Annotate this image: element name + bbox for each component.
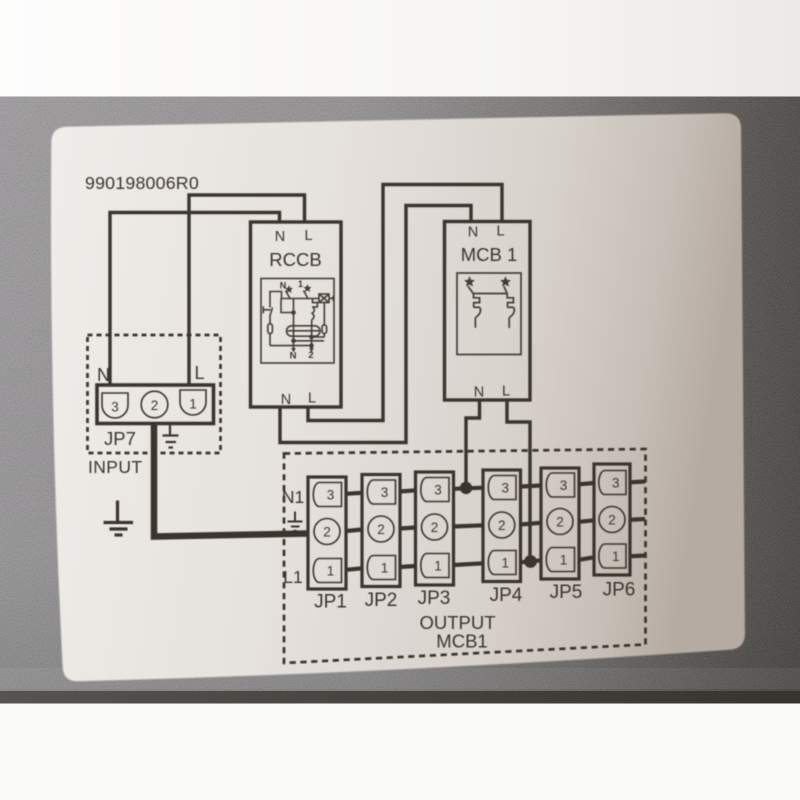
sensing lead upper [312, 336, 325, 338]
JP4 terminal pin [488, 476, 516, 500]
svg-text:JP3: JP3 [418, 588, 451, 609]
pole 2 terminal arrow [309, 348, 314, 353]
junction node on row3 bus [460, 482, 472, 494]
svg-text:L: L [194, 363, 204, 383]
bus row3 JP1-JP2 [346, 493, 362, 494]
MCB left thermal jog [474, 294, 480, 308]
svg-text:3: 3 [111, 400, 119, 415]
MCB left bar [474, 306, 480, 308]
JP7 terminal 2 [141, 391, 168, 418]
svg-text:1: 1 [612, 549, 620, 564]
MCB left pole star [465, 277, 475, 287]
JP5 terminal pin [546, 473, 574, 497]
test return line to pole 2 [270, 345, 312, 347]
trip coil lower lead [323, 303, 325, 325]
MCB right bar [507, 306, 513, 308]
RCCB left rail lower [269, 316, 271, 324]
trip coil end tick [332, 296, 334, 301]
toroid middle line [288, 330, 320, 332]
trip coil cross 2 [319, 294, 329, 303]
JP3 terminal 2 pin [422, 514, 448, 540]
svg-text:1: 1 [298, 279, 303, 289]
JP4 terminal pin [488, 551, 516, 575]
svg-text:3: 3 [327, 487, 335, 502]
JP3 terminal pin [421, 478, 449, 502]
RCCB pole N conductor [293, 299, 295, 349]
wire MCB1 L bottom down to output bus row1 [507, 399, 530, 562]
RCCB pole 1 thermal jog [312, 299, 317, 307]
RCCB test button [262, 306, 264, 313]
JP2 terminal pin [367, 556, 395, 580]
MCB right contact blade [504, 286, 507, 293]
svg-text:2: 2 [151, 398, 159, 413]
MCB left contact blade [468, 286, 473, 293]
test resistor [268, 324, 273, 334]
svg-text:3: 3 [434, 482, 442, 497]
INPUT dashed box [88, 335, 221, 453]
MCB right pole lower lead [508, 318, 510, 328]
svg-text:N: N [290, 351, 297, 362]
JP6 terminal pin [599, 544, 626, 568]
wire MCB1 N bottom down to output bus row3 [466, 399, 480, 488]
svg-text:N: N [280, 281, 287, 291]
bus row1 JP3-JP4 [454, 563, 484, 565]
svg-text:N1: N1 [282, 487, 304, 507]
svg-text:3: 3 [381, 485, 389, 500]
wire input N: JP7 terminal3 up and over to RCCB top N pin [110, 213, 280, 387]
trip coil lead right [329, 297, 333, 299]
JP4 terminal block [483, 470, 523, 606]
bus row2 JP4-JP5 [521, 523, 542, 525]
JP3 terminal pin [421, 554, 449, 578]
RCCB pole 2 conductor [311, 320, 313, 348]
MCB inner box [457, 273, 521, 355]
JP4 terminal 2 pin [489, 512, 515, 538]
RCCB pole N star [285, 286, 292, 293]
svg-text:1: 1 [327, 563, 335, 578]
panel grain texture [0, 97, 800, 704]
svg-text:JP5: JP5 [550, 582, 583, 603]
JP2 terminal block [362, 475, 400, 612]
pole N terminal arrow [291, 348, 296, 353]
svg-text:JP4: JP4 [490, 585, 523, 606]
svg-text:3: 3 [560, 478, 568, 493]
bus row2 JP3-JP4 [454, 525, 484, 526]
svg-text:N: N [474, 385, 484, 401]
svg-text:JP6: JP6 [603, 580, 636, 601]
RCCB pole N contact blade [286, 291, 291, 299]
svg-text:1: 1 [189, 397, 197, 412]
JP7 earth symbol [163, 425, 179, 448]
panel bottom edge highlight [0, 668, 800, 689]
JP7 terminal 3 [102, 393, 128, 418]
svg-text:2: 2 [377, 522, 385, 537]
JP1 terminal pin [313, 559, 341, 583]
wire RCCB L bottom to MCB1 L top [308, 185, 502, 421]
bus row3 JP3-JP4 [454, 488, 484, 489]
svg-text:N: N [468, 225, 478, 241]
bus row1 JP5-JP6 [579, 557, 594, 560]
svg-text:JP7: JP7 [104, 428, 136, 449]
bus row1 JP4-JP5 [521, 560, 542, 562]
svg-text:2: 2 [608, 512, 616, 527]
JP3 outline [416, 472, 454, 585]
svg-text:1: 1 [381, 560, 389, 575]
svg-text:2: 2 [323, 524, 331, 539]
svg-text:MCB 1: MCB 1 [461, 244, 518, 265]
svg-text:1: 1 [560, 552, 568, 567]
svg-text:2: 2 [498, 518, 506, 533]
svg-text:L: L [496, 224, 504, 240]
bus row3 JP5-JP6 [579, 483, 594, 484]
secondary winding capsule [322, 325, 327, 334]
MCB crossbar [473, 293, 507, 295]
trip coil cross 1 [319, 294, 329, 303]
bus row1 JP6-edge [630, 553, 645, 558]
node on pole N below toroid [291, 339, 296, 344]
JP3 terminal block [416, 472, 454, 609]
MCB right magnetic arc [509, 307, 514, 317]
RCCB internal top bus [282, 298, 320, 300]
RCCB tap branch to pole N [281, 299, 294, 313]
RCCB pole 1 star [304, 285, 311, 292]
bus row2 JP6-edge [630, 517, 645, 522]
JP4 outline [483, 470, 521, 582]
JP5 terminal 2 pin [547, 509, 573, 535]
white sticker label [51, 113, 745, 681]
RCCB inner box [261, 279, 334, 364]
JP7 terminal block outline [97, 385, 214, 424]
RCCB left rail to bottom [269, 334, 271, 346]
svg-text:RCCB: RCCB [269, 249, 321, 270]
sensing lead lower [294, 340, 325, 342]
bus row1 JP2-JP3 [400, 566, 416, 567]
JP1 terminal block [308, 477, 347, 613]
wire input L: JP7 terminal1 up and over to RCCB top L pin [189, 195, 305, 386]
RCCB internal schematic [261, 279, 334, 364]
JP5 terminal block [541, 468, 582, 603]
bus row1 JP1-JP2 [346, 568, 362, 570]
svg-text:L1: L1 [283, 567, 302, 587]
svg-text:N: N [275, 229, 285, 245]
svg-text:JP1: JP1 [314, 592, 347, 613]
svg-text:L: L [502, 384, 510, 400]
svg-text:L: L [308, 391, 316, 407]
RCCB block outline [251, 222, 342, 407]
svg-text:3: 3 [502, 480, 510, 495]
svg-text:1: 1 [502, 555, 510, 570]
bus row3 JP2-JP3 [400, 490, 416, 491]
MCB right pole star [501, 277, 511, 287]
panel vertical shading [0, 97, 800, 704]
JP1 terminal pin [313, 483, 341, 507]
JP7 terminal 1 [180, 390, 206, 415]
MCB1 block outline [445, 222, 531, 401]
RCCB pole 1 magnetic coil squiggle [312, 307, 315, 320]
svg-text:1: 1 [434, 558, 442, 573]
current transformer toroid [287, 326, 321, 336]
MCB left pole lower lead [474, 318, 476, 328]
top band subtle shading [0, 0, 800, 97]
JP1 terminal 2 pin [314, 519, 340, 545]
test switch blade [270, 308, 273, 317]
svg-text:MCB1: MCB1 [436, 631, 487, 652]
OUTPUT dashed box [284, 449, 646, 663]
svg-text:990198006R0: 990198006R0 [85, 173, 199, 193]
trip coil box [319, 294, 329, 303]
MCB1 internal schematic [457, 273, 521, 355]
JP6 terminal 2 pin [599, 507, 625, 533]
svg-text:2: 2 [556, 514, 564, 529]
svg-text:N: N [281, 392, 291, 408]
panel bottom seam [0, 691, 800, 704]
svg-text:JP2: JP2 [365, 590, 398, 611]
gray appliance panel [0, 97, 800, 704]
JP6 terminal pin [599, 471, 626, 495]
svg-text:N: N [97, 365, 110, 385]
RCCB pole 1 contact blade [304, 291, 309, 299]
wire RCCB N bottom to MCB1 N top [280, 206, 471, 443]
bus row2 JP2-JP3 [400, 528, 416, 529]
JP6 terminal block [594, 464, 635, 601]
svg-text:L: L [304, 228, 312, 244]
bus row3 JP4-JP5 [521, 486, 542, 487]
capsule bottom lead [323, 334, 325, 338]
JP2 terminal 2 pin [368, 516, 394, 542]
svg-text:INPUT: INPUT [88, 457, 143, 477]
node on pole 2 conductor [309, 343, 314, 348]
node on pole N conductor [291, 310, 296, 315]
JP2 outline [362, 475, 400, 587]
svg-text:2: 2 [308, 350, 313, 361]
MCB left magnetic arc [475, 307, 480, 317]
test button stem [263, 309, 270, 311]
bus row3 JP6-edge [630, 479, 645, 484]
JP1 outline [308, 477, 346, 589]
JP5 outline [541, 468, 579, 579]
MCB right thermal jog [507, 294, 513, 308]
JP5 terminal pin [546, 548, 574, 572]
N1 earth symbol [288, 512, 303, 531]
node below toroid on pole 2 [309, 335, 314, 340]
chassis ground symbol [104, 501, 134, 536]
junction node on row1 bus [524, 555, 537, 568]
thick earth/neutral wire from JP7 terminal2 to JP1 row2 [154, 422, 308, 537]
bus row2 JP1-JP2 [346, 530, 362, 532]
JP2 terminal pin [367, 480, 395, 504]
JP6 outline [594, 464, 630, 575]
bus row2 JP5-JP6 [579, 520, 594, 522]
RCCB left rail top step [270, 292, 282, 308]
svg-text:3: 3 [612, 475, 620, 490]
svg-text:2: 2 [431, 520, 439, 535]
